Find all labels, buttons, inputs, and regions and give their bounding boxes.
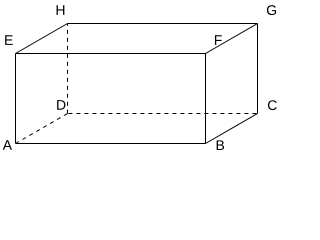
node H label <box>57 5 65 15</box>
node G label <box>267 5 276 15</box>
node C label <box>268 100 277 110</box>
wire edge E-F (front top) <box>16 53 206 55</box>
wire edge D-C (hidden back bottom, dashed) <box>68 113 258 115</box>
wire edge H-G (back top) <box>68 23 258 25</box>
wire edge A-B (front bottom) <box>16 143 206 145</box>
wire edge A-D (hidden bottom left depth, dashed) <box>16 114 68 144</box>
wire edge E-H (top left depth) <box>16 24 68 54</box>
node A label <box>3 140 12 150</box>
node E label <box>5 35 13 45</box>
node D label <box>57 100 65 110</box>
wire edge B-C (bottom right depth) <box>206 114 258 144</box>
wire edge F-G (top right depth) <box>206 24 258 54</box>
cuboid diagram ABCDEFGH <box>0 0 281 159</box>
node B label <box>217 140 224 150</box>
node F label <box>215 35 222 45</box>
wire edge G-C (back right vertical) <box>257 24 259 114</box>
wire edge F-B (front right) <box>205 54 207 144</box>
wire edge H-D (hidden back left vertical, dashed) <box>67 24 69 114</box>
wire edge E-A (front left) <box>15 54 17 144</box>
